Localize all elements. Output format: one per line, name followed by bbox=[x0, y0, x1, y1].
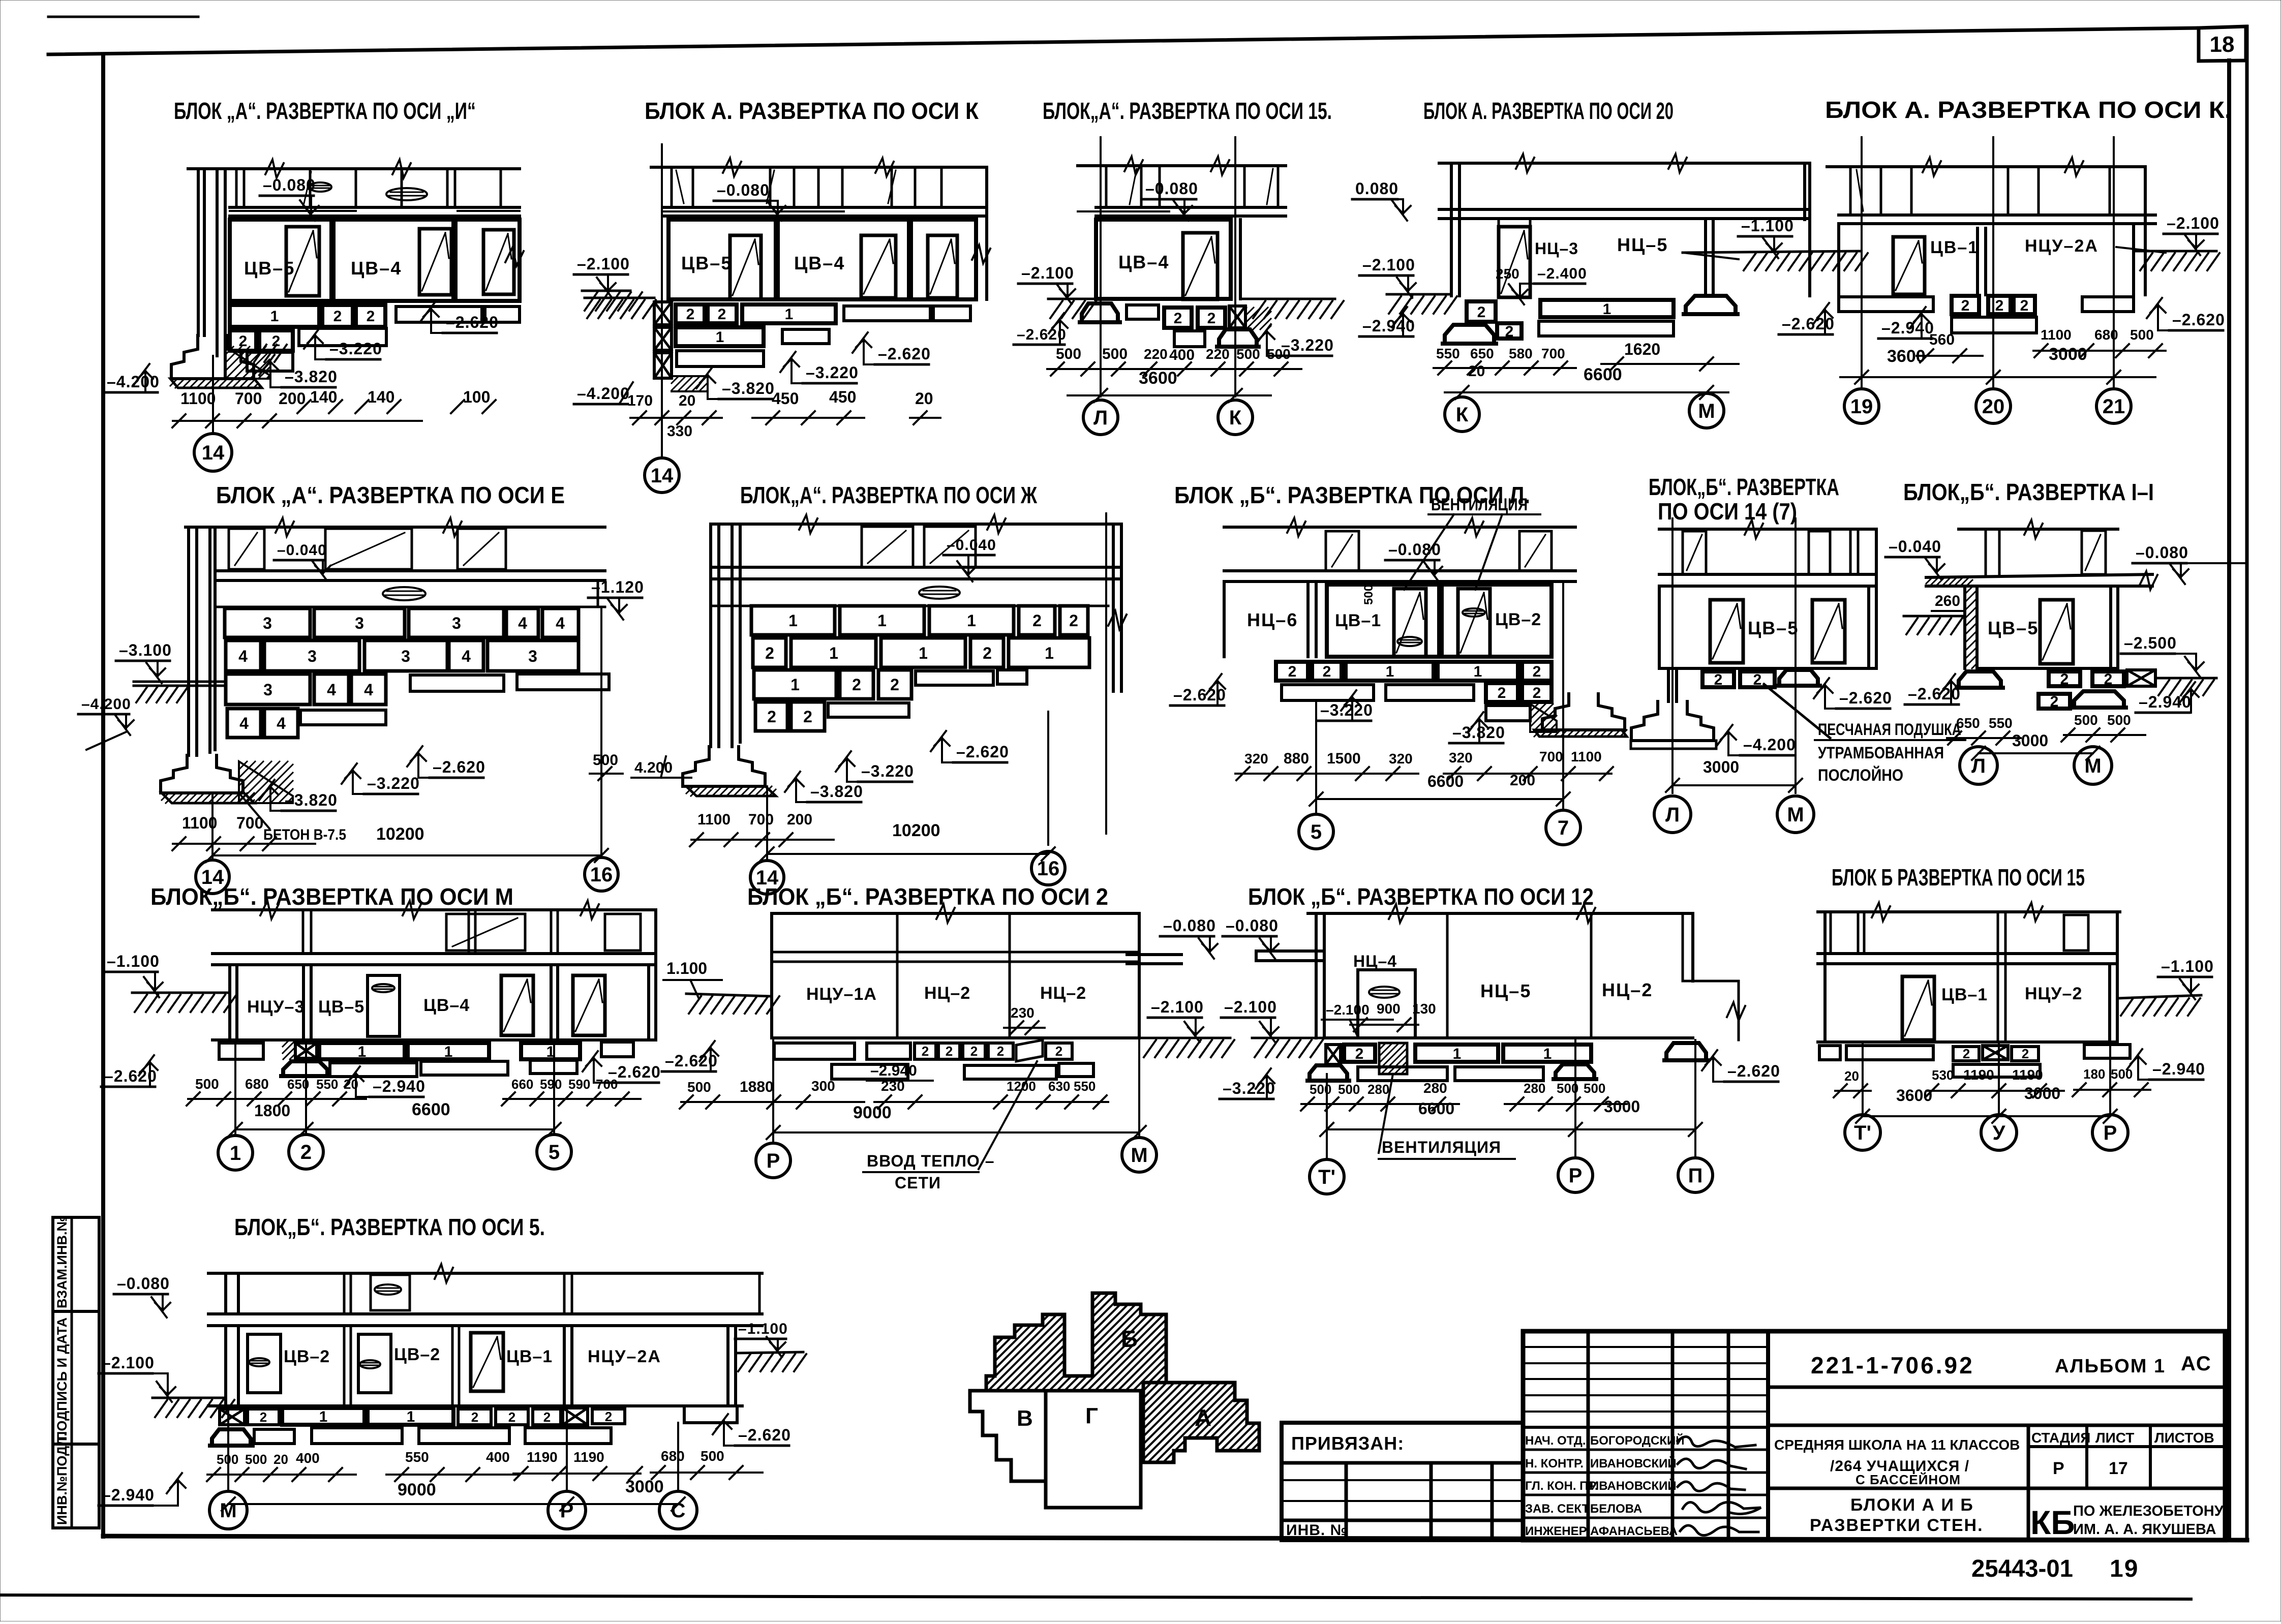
blocks row2 r4c1 bbox=[212, 1429, 251, 1446]
svg-text:ВЗАМ.ИНВ.№: ВЗАМ.ИНВ.№ bbox=[54, 1216, 70, 1308]
svg-text:20: 20 bbox=[679, 392, 695, 409]
svg-text:3: 3 bbox=[401, 647, 410, 665]
svg-text:2: 2 bbox=[1323, 663, 1331, 680]
svg-text:АЛЬБОМ 1: АЛЬБОМ 1 bbox=[2055, 1356, 2166, 1377]
svg-text:ЦВ–4: ЦВ–4 bbox=[423, 996, 470, 1015]
svg-text:4: 4 bbox=[556, 614, 565, 632]
svg-text:650: 650 bbox=[1956, 715, 1980, 731]
panel CV-5 bbox=[230, 220, 331, 301]
dimension line bbox=[173, 420, 422, 422]
svg-text:400: 400 bbox=[296, 1450, 320, 1466]
svg-text:2: 2 bbox=[2104, 671, 2113, 688]
svg-text:170: 170 bbox=[627, 392, 653, 409]
svg-text:УТРАМБОВАННАЯ: УТРАМБОВАННАЯ bbox=[1818, 744, 1944, 762]
svg-text:–1.100: –1.100 bbox=[107, 952, 160, 970]
svg-text:3000: 3000 bbox=[1703, 758, 1739, 776]
svg-text:А: А bbox=[1195, 1404, 1211, 1431]
svg-text:2: 2 bbox=[718, 306, 726, 323]
axis line 14 bbox=[661, 144, 663, 457]
svg-text:НЦ–6: НЦ–6 bbox=[1247, 609, 1298, 630]
svg-text:БЛОК„А“. РАЗВЕРТКА ПО ОСИ 15.: БЛОК„А“. РАЗВЕРТКА ПО ОСИ 15. bbox=[1043, 98, 1332, 124]
svg-text:–2.620: –2.620 bbox=[2172, 311, 2225, 329]
svg-text:100: 100 bbox=[463, 388, 490, 406]
svg-text:НЦ–4: НЦ–4 bbox=[1353, 952, 1397, 970]
upper band bbox=[671, 167, 673, 207]
svg-text:500: 500 bbox=[1102, 346, 1128, 362]
sheet title bbox=[1768, 1487, 2225, 1490]
svg-text:–0.080: –0.080 bbox=[1388, 540, 1441, 559]
svg-text:140: 140 bbox=[310, 388, 337, 406]
brick row B bbox=[226, 640, 261, 671]
svg-text:2: 2 bbox=[1055, 1044, 1062, 1059]
svg-text:1: 1 bbox=[829, 644, 838, 662]
svg-text:–1.100: –1.100 bbox=[2161, 957, 2214, 975]
svg-text:18: 18 bbox=[2210, 32, 2235, 57]
blocks r3c1 bbox=[219, 1043, 263, 1059]
main row r4c1 bbox=[224, 1326, 227, 1406]
svg-text:21: 21 bbox=[2103, 395, 2125, 418]
svg-text:20: 20 bbox=[1844, 1068, 1859, 1084]
svg-text:У: У bbox=[1993, 1122, 2006, 1144]
svg-text:590: 590 bbox=[540, 1077, 562, 1092]
svg-text:ИНВ.№ПОДЛ.: ИНВ.№ПОДЛ. bbox=[54, 1432, 70, 1525]
svg-text:Р: Р bbox=[2104, 1122, 2117, 1144]
svg-text:ПОДПИСЬ И ДАТА: ПОДПИСЬ И ДАТА bbox=[54, 1317, 70, 1441]
svg-text:3: 3 bbox=[308, 647, 317, 665]
svg-text:–3.820: –3.820 bbox=[285, 367, 338, 386]
svg-text:2: 2 bbox=[803, 708, 812, 726]
svg-text:1: 1 bbox=[444, 1044, 453, 1060]
svg-text:1: 1 bbox=[1386, 663, 1394, 680]
svg-text:550: 550 bbox=[316, 1077, 338, 1092]
svg-text:ЦВ–2: ЦВ–2 bbox=[1495, 610, 1541, 629]
hatched soil wedge bbox=[225, 347, 269, 379]
svg-text:2: 2 bbox=[1288, 663, 1297, 680]
svg-text:–1.120: –1.120 bbox=[591, 578, 644, 596]
svg-text:2: 2 bbox=[946, 1044, 953, 1059]
blocks bbox=[1467, 301, 1496, 322]
svg-text:–4.200: –4.200 bbox=[1743, 736, 1796, 754]
svg-text:–3.100: –3.100 bbox=[119, 641, 172, 659]
svg-text:3: 3 bbox=[263, 614, 272, 632]
svg-text:2: 2 bbox=[767, 708, 776, 726]
svg-text:ЦВ–4: ЦВ–4 bbox=[1118, 252, 1169, 272]
svg-text:–2.620: –2.620 bbox=[956, 743, 1009, 761]
svg-text:320: 320 bbox=[1449, 750, 1473, 765]
svg-text:Р: Р bbox=[767, 1150, 780, 1172]
svg-text:ЦВ–1: ЦВ–1 bbox=[1930, 238, 1979, 257]
svg-text:НЦУ–2: НЦУ–2 bbox=[2025, 984, 2082, 1003]
svg-text:1190: 1190 bbox=[1963, 1067, 1994, 1083]
svg-text:БЛОК„Б“. РАЗВЕРТКА: БЛОК„Б“. РАЗВЕРТКА bbox=[1649, 474, 1839, 500]
verticals r3c3 bbox=[1315, 913, 1318, 1038]
axis circles T P Pi r3c3 bbox=[1326, 1074, 1328, 1159]
svg-text:6600: 6600 bbox=[1418, 1099, 1454, 1118]
svg-text:5: 5 bbox=[549, 1141, 560, 1163]
panel CV-4 bbox=[333, 220, 453, 301]
svg-text:СРЕДНЯЯ ШКОЛА НА 11 КЛАССОВ: СРЕДНЯЯ ШКОЛА НА 11 КЛАССОВ bbox=[1774, 1437, 2020, 1453]
svg-text:–3.220: –3.220 bbox=[806, 363, 859, 382]
band r3c4 bbox=[1823, 912, 1827, 1042]
svg-text:2: 2 bbox=[852, 676, 861, 694]
band r4c1 bbox=[224, 1273, 227, 1314]
svg-text:–3.820: –3.820 bbox=[285, 791, 338, 809]
main row r3c1 bbox=[228, 965, 231, 1040]
svg-text:500: 500 bbox=[1584, 1081, 1605, 1096]
svg-text:1: 1 bbox=[1543, 1046, 1552, 1062]
slab r2c2 bbox=[711, 566, 1121, 569]
svg-text:ЗАВ. СЕКТ: ЗАВ. СЕКТ bbox=[1525, 1502, 1590, 1516]
svg-text:20: 20 bbox=[344, 1077, 358, 1092]
axis circles 14 16 bbox=[211, 793, 214, 860]
svg-text:ЦВ–5: ЦВ–5 bbox=[1988, 618, 2039, 638]
svg-text:250: 250 bbox=[1496, 266, 1519, 282]
svg-text:ЦВ–4: ЦВ–4 bbox=[794, 253, 845, 273]
svg-text:4: 4 bbox=[462, 647, 471, 665]
svg-text:Т': Т' bbox=[1318, 1166, 1335, 1188]
ground left r4c1 bbox=[153, 1397, 226, 1399]
brick row C bbox=[226, 674, 310, 704]
svg-text:–2.620: –2.620 bbox=[738, 1426, 791, 1444]
svg-text:Г: Г bbox=[1085, 1403, 1098, 1428]
window and labels bbox=[1499, 227, 1530, 297]
svg-text:550: 550 bbox=[1074, 1079, 1096, 1094]
blocks r3c3 bbox=[1326, 1045, 1341, 1064]
top line r2c3 bbox=[1224, 526, 1575, 529]
ground left r3c1 bbox=[132, 992, 230, 994]
axis circles M P C r4c1 bbox=[227, 1406, 229, 1491]
right axis line r2c2 bbox=[1105, 513, 1107, 834]
svg-text:500: 500 bbox=[245, 1452, 267, 1467]
svg-text:2: 2 bbox=[2020, 297, 2029, 314]
svg-text:БЛОК А. РАЗВЕРТКА ПО ОСИ К.: БЛОК А. РАЗВЕРТКА ПО ОСИ К. bbox=[1825, 97, 2232, 123]
svg-text:550: 550 bbox=[405, 1449, 429, 1465]
svg-text:НЦ–5: НЦ–5 bbox=[1617, 234, 1668, 255]
svg-text:БЛОК „А“. РАЗВЕРТКА ПО ОСИ „И: БЛОК „А“. РАЗВЕРТКА ПО ОСИ „И“ bbox=[174, 98, 476, 124]
svg-text:2: 2 bbox=[260, 1409, 267, 1425]
svg-text:3000: 3000 bbox=[2012, 731, 2048, 750]
svg-text:2: 2 bbox=[272, 333, 281, 350]
svg-text:–0.080: –0.080 bbox=[2136, 543, 2188, 562]
svg-text:КБ: КБ bbox=[2030, 1504, 2075, 1541]
svg-text:БЛОК Б РАЗВЕРТКА ПО ОСИ 15: БЛОК Б РАЗВЕРТКА ПО ОСИ 15 bbox=[1832, 864, 2085, 891]
svg-text:БЛОК „А“. РАЗВЕРТКА ПО ОСИ Е: БЛОК „А“. РАЗВЕРТКА ПО ОСИ Е bbox=[216, 482, 565, 508]
title block outer bbox=[1523, 1331, 2225, 1540]
svg-text:БЛОК„Б“. РАЗВЕРТКА I–I: БЛОК„Б“. РАЗВЕРТКА I–I bbox=[1903, 479, 2154, 505]
svg-text:СТАДИЯ: СТАДИЯ bbox=[2031, 1430, 2090, 1446]
svg-text:1: 1 bbox=[358, 1044, 367, 1060]
svg-text:2: 2 bbox=[1714, 671, 1723, 688]
svg-text:–3.820: –3.820 bbox=[810, 782, 863, 801]
slab r2c3 bbox=[1224, 569, 1575, 572]
svg-text:630: 630 bbox=[1048, 1079, 1070, 1094]
svg-text:1500: 1500 bbox=[1327, 750, 1361, 767]
svg-text:–2.400: –2.400 bbox=[1537, 265, 1587, 282]
main row bbox=[1837, 224, 1840, 295]
svg-text:ЦВ–5: ЦВ–5 bbox=[681, 253, 732, 273]
svg-text:200: 200 bbox=[787, 811, 812, 828]
svg-text:500: 500 bbox=[1056, 346, 1081, 362]
svg-text:221-1-706.92: 221-1-706.92 bbox=[1811, 1352, 1974, 1378]
svg-text:400: 400 bbox=[1169, 347, 1195, 363]
svg-text:500: 500 bbox=[1236, 346, 1260, 362]
svg-text:–0.080: –0.080 bbox=[1145, 179, 1198, 198]
svg-text:–2.100: –2.100 bbox=[1362, 256, 1415, 274]
slab bbox=[1839, 213, 2155, 217]
svg-text:–2.940: –2.940 bbox=[2152, 1060, 2205, 1078]
svg-text:2: 2 bbox=[1498, 685, 1506, 701]
svg-text:140: 140 bbox=[368, 388, 394, 406]
frame bottom border bbox=[103, 1536, 2247, 1540]
ground left bbox=[585, 297, 654, 299]
svg-text:660: 660 bbox=[511, 1077, 533, 1092]
svg-text:680: 680 bbox=[245, 1076, 269, 1092]
svg-text:230: 230 bbox=[881, 1078, 905, 1094]
axis circles L K bbox=[1083, 400, 1118, 435]
svg-text:Т': Т' bbox=[1854, 1122, 1871, 1144]
svg-text:2: 2 bbox=[997, 1044, 1004, 1059]
svg-text:2: 2 bbox=[2022, 1046, 2029, 1061]
slab bbox=[215, 569, 605, 572]
svg-text:3: 3 bbox=[355, 614, 364, 632]
svg-text:–2.100: –2.100 bbox=[1151, 998, 1204, 1016]
svg-text:280: 280 bbox=[1524, 1081, 1545, 1096]
svg-text:260: 260 bbox=[1935, 593, 1960, 609]
svg-text:500: 500 bbox=[2074, 712, 2098, 728]
svg-text:1: 1 bbox=[919, 644, 928, 662]
svg-text:ИМ. А. А. ЯКУШЕВА: ИМ. А. А. ЯКУШЕВА bbox=[2073, 1521, 2216, 1538]
svg-text:500: 500 bbox=[1267, 346, 1291, 362]
svg-text:3: 3 bbox=[452, 614, 461, 632]
svg-text:700: 700 bbox=[748, 811, 774, 828]
slab r2c5 with hatched left bbox=[1926, 574, 2152, 577]
blocks r2c5 bbox=[1959, 671, 2001, 688]
band bbox=[1849, 167, 1852, 215]
second band with vent bbox=[215, 606, 605, 608]
axis circles 19 20 21 bbox=[1844, 389, 1879, 423]
svg-text:–2.940: –2.940 bbox=[870, 1062, 917, 1079]
svg-text:НЦ–2: НЦ–2 bbox=[1602, 979, 1653, 1000]
right partial panel bbox=[911, 220, 976, 299]
svg-text:АС: АС bbox=[2181, 1353, 2212, 1375]
svg-text:2: 2 bbox=[1533, 663, 1541, 680]
brick row A r2c2 bbox=[751, 606, 835, 635]
svg-text:С БАССЕЙНОМ: С БАССЕЙНОМ bbox=[1856, 1472, 1961, 1487]
svg-text:10200: 10200 bbox=[376, 824, 424, 844]
svg-text:500: 500 bbox=[1310, 1082, 1331, 1097]
svg-text:ЦВ–1: ЦВ–1 bbox=[1941, 985, 1988, 1004]
axis circles K M bbox=[1445, 397, 1479, 432]
svg-text:2: 2 bbox=[1477, 304, 1486, 321]
svg-text:2: 2 bbox=[1963, 1046, 1970, 1061]
svg-text:680: 680 bbox=[661, 1448, 685, 1464]
svg-text:280: 280 bbox=[1423, 1080, 1447, 1096]
svg-text:НЦ–2: НЦ–2 bbox=[1040, 984, 1086, 1003]
top line r2c5 bbox=[1959, 528, 2118, 531]
svg-text:1: 1 bbox=[1474, 663, 1482, 680]
svg-text:В: В bbox=[1017, 1406, 1033, 1431]
svg-text:БЛОК „Б“. РАЗВЕРТКА ПО ОСИ 12: БЛОК „Б“. РАЗВЕРТКА ПО ОСИ 12 bbox=[1248, 883, 1594, 910]
svg-text:ПОСЛОЙНО: ПОСЛОЙНО bbox=[1818, 766, 1903, 784]
svg-text:300: 300 bbox=[811, 1078, 835, 1094]
svg-text:5: 5 bbox=[1311, 821, 1322, 843]
svg-text:1800: 1800 bbox=[254, 1101, 290, 1120]
slab r2c4 bbox=[1659, 573, 1876, 576]
svg-text:900: 900 bbox=[1377, 1001, 1401, 1017]
sheet number box 18 bbox=[2199, 26, 2246, 61]
svg-text:4: 4 bbox=[238, 647, 248, 665]
svg-text:700: 700 bbox=[596, 1077, 618, 1092]
key plan block B hatched bbox=[986, 1293, 1166, 1391]
band windows r2c2 bbox=[862, 527, 913, 567]
svg-text:880: 880 bbox=[1284, 750, 1309, 767]
svg-text:320: 320 bbox=[1389, 751, 1413, 767]
svg-text:500: 500 bbox=[2107, 712, 2131, 728]
ground hatch right of footing bbox=[254, 345, 266, 362]
svg-text:1620: 1620 bbox=[1624, 340, 1660, 358]
svg-text:–3.220: –3.220 bbox=[861, 762, 914, 780]
svg-text:25443-01: 25443-01 bbox=[1971, 1555, 2073, 1582]
band verticals bbox=[1450, 163, 1453, 296]
svg-text:3000: 3000 bbox=[1604, 1097, 1640, 1116]
blocks row2 r3c1 bbox=[283, 1061, 327, 1076]
svg-text:19: 19 bbox=[2110, 1555, 2139, 1582]
axis 14 circle bbox=[212, 356, 214, 434]
footing r2c3 right bbox=[1530, 704, 1557, 732]
svg-text:2: 2 bbox=[508, 1409, 515, 1425]
svg-text:2: 2 bbox=[1753, 671, 1762, 688]
svg-text:2: 2 bbox=[1032, 611, 1042, 630]
svg-text:М: М bbox=[1787, 804, 1804, 826]
svg-text:500: 500 bbox=[2111, 1066, 2133, 1082]
svg-text:2: 2 bbox=[1069, 611, 1078, 630]
svg-text:450: 450 bbox=[772, 389, 799, 408]
svg-text:3000: 3000 bbox=[2024, 1084, 2060, 1102]
svg-text:500: 500 bbox=[2130, 327, 2154, 343]
svg-text:400: 400 bbox=[486, 1449, 510, 1465]
svg-text:М: М bbox=[2084, 755, 2101, 777]
svg-text:НЦУ–1А: НЦУ–1А bbox=[806, 985, 877, 1004]
svg-text:–0.040: –0.040 bbox=[947, 537, 996, 554]
svg-text:НЦ–5: НЦ–5 bbox=[1480, 980, 1531, 1001]
ground right bbox=[2135, 250, 2216, 253]
svg-text:10200: 10200 bbox=[892, 821, 940, 840]
svg-text:220: 220 bbox=[1206, 346, 1230, 362]
title block right part: top row bbox=[1768, 1386, 2225, 1389]
svg-text:1: 1 bbox=[230, 1142, 241, 1165]
svg-text:–0.040: –0.040 bbox=[277, 542, 327, 559]
main panel CV-4 bbox=[1096, 220, 1231, 299]
svg-text:6600: 6600 bbox=[1427, 772, 1464, 790]
foundation blocks row 3 bbox=[247, 352, 293, 371]
key plan block A hatched bbox=[1143, 1383, 1259, 1462]
svg-text:280: 280 bbox=[1367, 1082, 1389, 1097]
svg-text:Л: Л bbox=[1665, 804, 1680, 826]
svg-text:ЦВ–2: ЦВ–2 bbox=[394, 1345, 440, 1364]
axis circles T U P r3c4 bbox=[1862, 1042, 1864, 1115]
blocks r3c2 bbox=[774, 1043, 855, 1059]
blocks r2c4 bbox=[1702, 671, 1734, 687]
ground left r3c3 bbox=[1252, 1037, 1324, 1039]
slab bbox=[1096, 206, 1286, 209]
svg-text:320: 320 bbox=[1244, 751, 1268, 767]
band r3c2 bbox=[770, 913, 773, 1038]
brick row D bbox=[227, 709, 261, 738]
privyazan box bbox=[1282, 1423, 1523, 1540]
svg-text:1: 1 bbox=[877, 611, 887, 630]
svg-text:Л: Л bbox=[1093, 407, 1108, 429]
svg-text:1: 1 bbox=[716, 329, 724, 346]
svg-text:2: 2 bbox=[922, 1044, 929, 1059]
svg-text:М: М bbox=[1131, 1144, 1147, 1167]
crossed blocks column bbox=[654, 302, 672, 325]
svg-text:500: 500 bbox=[1362, 585, 1376, 605]
floor slab lines bbox=[230, 206, 520, 209]
svg-text:ГЛ. КОН. ПР.: ГЛ. КОН. ПР. bbox=[1525, 1479, 1598, 1493]
svg-text:4: 4 bbox=[364, 681, 373, 699]
foundation blocks bbox=[1082, 303, 1118, 322]
svg-text:–2.940: –2.940 bbox=[1881, 319, 1934, 337]
svg-text:ИНВ. №: ИНВ. № bbox=[1286, 1522, 1348, 1539]
svg-text:4: 4 bbox=[327, 681, 336, 699]
svg-text:–2.620: –2.620 bbox=[1727, 1062, 1780, 1080]
slab lines bbox=[663, 206, 987, 209]
svg-text:БЛОКИ А И Б: БЛОКИ А И Б bbox=[1850, 1495, 1974, 1515]
ground hatch left r2c5 bbox=[1904, 615, 1965, 618]
svg-text:2: 2 bbox=[2060, 671, 2069, 688]
svg-text:ЦВ–1: ЦВ–1 bbox=[506, 1347, 553, 1366]
svg-text:–2.100: –2.100 bbox=[1021, 264, 1074, 282]
axis circles L M r2c4 bbox=[1654, 796, 1691, 833]
footing r2c2 bbox=[683, 747, 765, 786]
svg-text:–2.100: –2.100 bbox=[1224, 998, 1277, 1016]
svg-text:НЦУ–3: НЦУ–3 bbox=[247, 997, 305, 1017]
key plan block V bbox=[970, 1391, 1046, 1481]
svg-text:2: 2 bbox=[1207, 310, 1216, 327]
svg-text:ИВАНОВСКИЙ: ИВАНОВСКИЙ bbox=[1590, 1479, 1677, 1493]
svg-text:1: 1 bbox=[785, 306, 794, 323]
svg-text:1: 1 bbox=[967, 611, 976, 630]
svg-text:ИВАНОВСКИЙ: ИВАНОВСКИЙ bbox=[1590, 1456, 1677, 1470]
svg-text:180: 180 bbox=[2083, 1066, 2105, 1082]
foundation blocks row 2 bbox=[230, 330, 256, 351]
svg-text:700: 700 bbox=[1539, 749, 1563, 764]
svg-text:20: 20 bbox=[915, 389, 933, 408]
svg-text:9000: 9000 bbox=[398, 1480, 436, 1499]
svg-text:–3.220: –3.220 bbox=[367, 774, 420, 792]
svg-text:7: 7 bbox=[1558, 817, 1569, 839]
svg-text:–0.040: –0.040 bbox=[1889, 537, 1941, 556]
svg-text:–2.620: –2.620 bbox=[446, 313, 499, 331]
upper band windows bbox=[1106, 166, 1141, 207]
svg-text:ЦВ–5: ЦВ–5 bbox=[318, 997, 364, 1017]
soil wedge right of footing bbox=[239, 761, 293, 803]
svg-text:500: 500 bbox=[593, 752, 618, 769]
slab r3c4 bbox=[1818, 952, 2117, 955]
svg-text:–0.080: –0.080 bbox=[263, 176, 316, 194]
svg-text:–2.940: –2.940 bbox=[373, 1077, 425, 1095]
svg-text:2: 2 bbox=[1505, 323, 1514, 340]
svg-text:450: 450 bbox=[829, 388, 856, 406]
svg-text:ЦВ–2: ЦВ–2 bbox=[284, 1347, 330, 1366]
svg-text:ЦВ–1: ЦВ–1 bbox=[1335, 611, 1381, 630]
svg-text:НЦ–3: НЦ–3 bbox=[1535, 239, 1578, 258]
svg-text:3: 3 bbox=[528, 647, 537, 665]
svg-text:500: 500 bbox=[687, 1079, 711, 1095]
main row r2c4 bbox=[1658, 586, 1661, 668]
svg-text:–2.100: –2.100 bbox=[577, 255, 630, 273]
svg-text:4: 4 bbox=[277, 714, 286, 732]
